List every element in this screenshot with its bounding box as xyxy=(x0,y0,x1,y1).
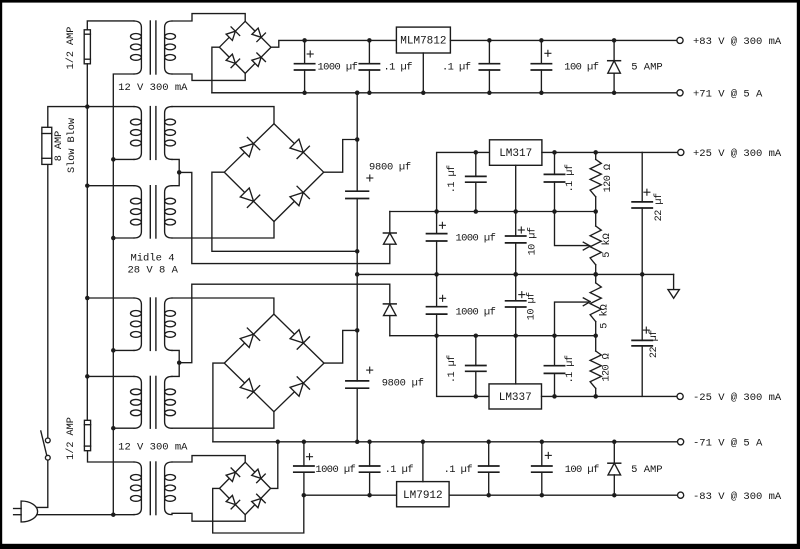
wire +83 regulated rail xyxy=(450,39,677,41)
bridge rectifier BR1 xyxy=(219,21,271,73)
wire T2 secondary top to bridge BR2 xyxy=(172,107,274,124)
capacitor C11 22 uf (upper) xyxy=(641,152,643,202)
wire C14 to ADJ2 xyxy=(515,307,517,336)
transformer T1 primary winding xyxy=(134,21,141,74)
svg-text:1000 µf: 1000 µf xyxy=(318,62,358,74)
wire LM337 output rail -25 xyxy=(542,395,678,397)
wire C14 to ground line xyxy=(515,274,517,300)
wiper R4 xyxy=(555,302,589,336)
op-amp U1 MLM7812 regulator xyxy=(396,27,450,53)
wire BR1 - output to +71 rail xyxy=(212,47,305,93)
transformer T4 core xyxy=(149,298,151,350)
junction T3 primary bottom xyxy=(111,236,116,241)
wire switch to fuse F2 xyxy=(47,164,49,438)
wire T1 secondary top to bridge BR1 xyxy=(172,14,245,22)
svg-text:5 kΩ: 5 kΩ xyxy=(599,304,611,328)
wire +71 rail xyxy=(212,92,677,94)
wire C9 to ground line xyxy=(436,241,438,274)
polarity + C11 xyxy=(644,191,650,193)
wire LM7912 ground pin xyxy=(422,442,424,482)
junction C8 bottom xyxy=(552,209,557,214)
wire C12 to ground line xyxy=(436,274,438,306)
wire to T4 primary top xyxy=(87,297,134,299)
capacitor C19 .1 uf (bottom right) xyxy=(488,442,490,466)
polarity + C5 xyxy=(367,177,373,179)
svg-text:LM7912: LM7912 xyxy=(403,490,443,502)
node center tap CT2 xyxy=(177,360,182,365)
svg-text:1000 µf: 1000 µf xyxy=(456,307,496,319)
wire fuse F3 to T6 primary top xyxy=(88,451,135,462)
wire T6 secondary top to bridge BR4 xyxy=(172,456,245,463)
capacitor C1 1000 uf (top) xyxy=(304,40,306,63)
svg-text:MLM7812: MLM7812 xyxy=(400,36,446,48)
capacitor C14 10 uf (lower) xyxy=(506,300,526,302)
svg-text:22 µf: 22 µf xyxy=(648,330,660,358)
wire to T3 primary top xyxy=(87,185,134,187)
junction LM337 ADJ xyxy=(513,333,518,338)
junction R1 bottom xyxy=(593,209,598,214)
svg-text:1000 µf: 1000 µf xyxy=(315,464,355,476)
wire C12 to ADJ2 xyxy=(436,314,438,336)
transformer T1 secondary winding xyxy=(165,21,172,74)
svg-text:.1 µf: .1 µf xyxy=(446,355,458,383)
svg-text:10 µf: 10 µf xyxy=(525,292,537,320)
wire to T3 primary bottom xyxy=(113,237,134,239)
junction -83 rail start xyxy=(302,493,307,498)
wire fuse F1 top to T1 primary xyxy=(87,21,134,30)
terminal +25 V xyxy=(678,149,684,155)
terminal +83 V xyxy=(677,37,683,43)
svg-text:1000 µf: 1000 µf xyxy=(456,233,496,245)
diode D1 xyxy=(383,232,396,234)
junction C11 ground xyxy=(640,272,645,277)
op-amp U3 LM337 regulator xyxy=(489,384,542,409)
svg-text:12 V 300 mA: 12 V 300 mA xyxy=(118,442,188,454)
junction C10 ground xyxy=(513,272,518,277)
svg-text:.1 µf: .1 µf xyxy=(564,355,576,383)
capacitor C7 .1 uf (LM317 input) xyxy=(475,152,477,176)
svg-text:28 V 8 A: 28 V 8 A xyxy=(127,265,178,277)
transformer T3 secondary winding xyxy=(165,186,172,238)
junction main vertical on -71 rail xyxy=(355,440,360,445)
wire T5 secondary bottom to bridge BR3 xyxy=(172,412,274,429)
wire BR3 + output to mid ground xyxy=(324,330,357,363)
AC plug P1 xyxy=(21,501,38,522)
wire +83 raw rail xyxy=(305,39,397,41)
capacitor C9 1000 uf xyxy=(436,212,438,234)
svg-text:22 µf: 22 µf xyxy=(653,193,665,221)
capacitor C4 100 uf (top) xyxy=(540,40,542,63)
op-amp U4 LM7912 regulator xyxy=(397,482,450,507)
potentiometer R4 5 kOhm (lower) xyxy=(595,322,597,336)
polarity + C17 xyxy=(307,456,313,458)
ground symbol xyxy=(668,290,679,299)
wire fuse F2 to node A xyxy=(48,107,88,128)
fuse F1 1/2 AMP (top) xyxy=(84,30,90,64)
fuse F2 8 AMP Slow Blow xyxy=(42,127,52,164)
wiper R2 xyxy=(555,212,589,246)
svg-text:.1 µf: .1 µf xyxy=(384,62,413,74)
junction T3 primary top xyxy=(85,183,90,188)
junction main vertical on +71 rail xyxy=(355,91,360,96)
svg-text:120 Ω: 120 Ω xyxy=(603,164,614,192)
svg-text:.1 µf: .1 µf xyxy=(442,62,471,74)
junction ground tap xyxy=(355,272,360,277)
wire neutral bus x=113.3 xyxy=(113,74,134,515)
wire main vertical ground segment xyxy=(356,199,358,381)
junction BR2+ on main vertical xyxy=(355,137,360,142)
transformer T2 secondary winding xyxy=(165,107,172,160)
transformer T6 core xyxy=(149,462,151,515)
node center tap CT1 xyxy=(177,170,182,175)
wire T6 secondary bottom to bridge BR4 xyxy=(172,513,245,521)
terminal -25 V xyxy=(677,393,683,399)
wire plug neutral rail xyxy=(37,514,134,516)
capacitor C5 9800 uf (upper) xyxy=(346,190,369,192)
transformer T5 primary winding xyxy=(134,376,141,428)
svg-text:.1 µf: .1 µf xyxy=(564,164,576,192)
wire T4 secondary top to bridge BR3 xyxy=(172,298,274,314)
capacitor C6 9800 uf (lower) xyxy=(346,380,369,382)
wire center tap CT1 run xyxy=(179,172,390,263)
diode D2 xyxy=(383,303,396,305)
transformer T3 core xyxy=(149,186,151,238)
svg-text:10 µf: 10 µf xyxy=(526,227,538,255)
junction R3 bottom xyxy=(593,394,598,399)
transformer T4 primary winding xyxy=(134,298,141,350)
transformer T2 primary winding xyxy=(134,107,141,160)
junction LM317 ADJ xyxy=(513,209,518,214)
wire LM337 input rise xyxy=(437,336,489,397)
svg-text:5 AMP: 5 AMP xyxy=(631,62,663,74)
capacitor C17 1000 uf (bottom) xyxy=(303,442,305,466)
wire T3 secondary bottom to bridge BR2 xyxy=(172,222,274,239)
svg-text:1/2 AMP: 1/2 AMP xyxy=(65,417,77,460)
page border frame xyxy=(0,0,800,3)
polarity + C4 xyxy=(545,52,551,54)
svg-text:-83 V @ 300 mA: -83 V @ 300 mA xyxy=(693,491,782,503)
junction T4 primary top xyxy=(85,296,90,301)
svg-text:120 Ω: 120 Ω xyxy=(602,353,613,381)
wire -83 rail xyxy=(304,494,678,496)
capacitor C18 .1 uf (bottom left) xyxy=(369,442,371,466)
junction BR4+ on -71 rail xyxy=(276,440,281,445)
junction ADJ/input x=436.6 xyxy=(434,209,439,214)
bridge rectifier BR3 xyxy=(224,314,324,412)
svg-text:-71 V @ 5 A: -71 V @ 5 A xyxy=(693,438,763,450)
wire main vertical lower segment xyxy=(356,388,358,442)
wire T2/T3 secondary series link xyxy=(172,159,179,185)
junction ADJ2/input x=436.6 xyxy=(434,333,439,338)
resistor R1 120 Ohm xyxy=(595,152,597,159)
wire BR2 - output to mid ground xyxy=(212,172,357,251)
polarity + C20 xyxy=(545,454,551,456)
polarity + C16 xyxy=(643,329,649,331)
wire plug to switch xyxy=(36,460,47,507)
svg-text:100 µf: 100 µf xyxy=(564,62,598,74)
bridge rectifier BR2 xyxy=(224,124,323,222)
svg-text:+71 V @ 5 A: +71 V @ 5 A xyxy=(693,89,763,101)
wire to T4 primary bottom xyxy=(113,349,134,351)
bridge rectifier BR4 xyxy=(220,462,271,515)
op-amp U2 LM317 regulator xyxy=(490,140,542,166)
diode D4 5 AMP (bottom) xyxy=(613,442,615,463)
wire to T5 primary bottom xyxy=(113,427,134,429)
capacitor C10 10 uf xyxy=(515,212,517,237)
wire ADJ2 line (LM337) xyxy=(390,335,596,337)
wire node A to T2 primary top xyxy=(87,106,134,108)
transformer T5 core xyxy=(149,376,151,428)
junction R1 top xyxy=(593,150,598,155)
wire LM317 input drop xyxy=(437,152,490,211)
capacitor C3 .1 uf (after reg) xyxy=(488,40,490,63)
transformer T5 secondary winding xyxy=(165,376,172,428)
wire T1 secondary bottom to bridge BR1 xyxy=(172,73,245,80)
junction C7 bottom xyxy=(474,209,479,214)
wire ADJ line (LM317) xyxy=(390,211,596,213)
capacitor C16 22 uf (lower) xyxy=(641,274,643,340)
junction BR2- on main vertical xyxy=(355,249,360,254)
wire center tap CT2 run xyxy=(179,284,390,363)
junction R2 bottom ground xyxy=(593,272,598,277)
svg-text:12 V 300 mA: 12 V 300 mA xyxy=(118,82,188,94)
junction T5 primary bottom xyxy=(111,426,116,431)
polarity + C10 xyxy=(518,229,524,231)
transformer T1 core xyxy=(149,21,151,74)
wire C10 to ground line xyxy=(515,243,517,275)
junction T4 primary bottom xyxy=(111,348,116,353)
transformer T2 core xyxy=(149,107,151,160)
wire LM317 output rail +25 xyxy=(542,151,678,153)
junction T5 primary top xyxy=(85,374,90,379)
resistor R3 120 Ohm (lower) xyxy=(595,388,597,396)
capacitor C20 100 uf (bottom) xyxy=(541,442,543,466)
wire BR2 + output to filter node xyxy=(324,140,358,173)
capacitor C12 1000 uf (mid lower) xyxy=(427,306,447,308)
wire main vertical upper segment xyxy=(356,93,358,191)
polarity + C12 xyxy=(440,297,446,299)
junction C15 bottom xyxy=(552,394,557,399)
transformer T3 primary winding xyxy=(134,186,141,238)
wire D2 to ADJ2 line xyxy=(389,316,391,336)
svg-text:5 AMP: 5 AMP xyxy=(631,464,663,476)
svg-text:+25 V @ 300 mA: +25 V @ 300 mA xyxy=(693,148,782,160)
junction R3 top xyxy=(593,333,598,338)
svg-text:Slow Blow: Slow Blow xyxy=(66,117,78,173)
wire BR3 - output to -71 rail xyxy=(213,363,224,442)
svg-text:LM337: LM337 xyxy=(499,392,532,404)
wire MLM7812 ground pin xyxy=(422,53,424,93)
wire to T2 primary bottom xyxy=(113,158,134,160)
junction main vertical top xyxy=(355,91,360,96)
svg-text:.1 µf: .1 µf xyxy=(446,165,458,193)
capacitor C2 .1 uf (top) xyxy=(368,40,370,63)
terminal +71 V xyxy=(677,90,683,96)
wire BR4 + output to -71 rail xyxy=(271,442,278,489)
svg-text:100 µf: 100 µf xyxy=(565,464,599,476)
wire mid ground line xyxy=(357,273,673,275)
wire BR4 - output to -83 rail xyxy=(213,488,304,533)
polarity + C1 xyxy=(307,53,313,55)
wire primary feed bus x=87 xyxy=(86,64,88,420)
transformer T6 secondary winding xyxy=(165,462,172,515)
wire LM337 ADJ pin xyxy=(515,336,517,384)
transformer T6 primary winding xyxy=(134,462,141,515)
junction C14 ground xyxy=(513,272,518,277)
transformer T4 secondary winding xyxy=(165,298,172,350)
capacitor C13 .1 uf (LM337 input) xyxy=(475,371,477,396)
junction C7 top xyxy=(474,150,479,155)
polarity + C6 xyxy=(367,369,373,371)
polarity + C14 xyxy=(519,294,525,296)
wire to T5 primary top xyxy=(87,375,134,377)
svg-text:+83 V @ 300 mA: +83 V @ 300 mA xyxy=(693,36,782,48)
wire D1 to ADJ line xyxy=(389,212,391,234)
switch S1 xyxy=(45,438,50,443)
potentiometer R2 5 kOhm xyxy=(595,212,597,227)
wire T4/T5 secondary series link xyxy=(172,350,179,376)
svg-text:.1 µf: .1 µf xyxy=(444,464,473,476)
svg-text:8 AMP: 8 AMP xyxy=(54,131,65,162)
svg-text:5 kΩ: 5 kΩ xyxy=(601,233,613,257)
svg-text:-25 V @ 300 mA: -25 V @ 300 mA xyxy=(693,392,782,404)
junction T2 primary bottom xyxy=(111,157,116,162)
svg-text:.1 µf: .1 µf xyxy=(385,464,414,476)
junction C8 top xyxy=(552,150,557,155)
svg-text:LM317: LM317 xyxy=(499,148,532,160)
wire -71 rail xyxy=(213,441,678,443)
terminal -83 V xyxy=(678,492,684,498)
terminal -71 V xyxy=(678,439,684,445)
fuse F3 1/2 AMP (bottom) xyxy=(84,420,90,450)
wire LM317 ADJ pin xyxy=(515,165,517,211)
capacitor C8 .1 uf (LM317 output) xyxy=(554,152,556,174)
capacitor C15 .1 uf (LM337 output) xyxy=(554,373,556,396)
polarity + C9 xyxy=(439,224,445,226)
wire ground drop xyxy=(673,274,675,289)
wire BR1 + output to +83 raw rail xyxy=(271,40,305,47)
junction C9 ground xyxy=(434,272,439,277)
junction C13 bottom xyxy=(474,394,479,399)
junction BR3+ on main vertical xyxy=(355,328,360,333)
junction R4 top ground xyxy=(593,272,598,277)
svg-text:Midle 4: Midle 4 xyxy=(130,253,174,265)
svg-text:9800 µf: 9800 µf xyxy=(369,161,411,173)
diode D3 5 AMP (top) xyxy=(613,40,615,60)
junction C15 top xyxy=(552,333,557,338)
junction C13 top xyxy=(474,333,479,338)
node A junction xyxy=(85,104,90,109)
junction plug neutral to T6 primary bottom xyxy=(111,512,116,517)
svg-text:9800 µf: 9800 µf xyxy=(382,377,424,389)
svg-text:1/2 AMP: 1/2 AMP xyxy=(65,27,77,70)
